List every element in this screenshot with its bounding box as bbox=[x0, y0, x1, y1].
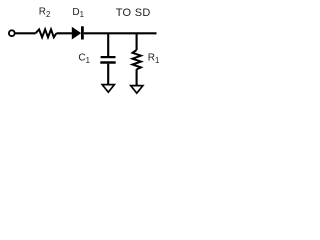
svg-text:R1: R1 bbox=[148, 53, 160, 65]
svg-text:TO SD: TO SD bbox=[116, 7, 151, 19]
svg-text:D1: D1 bbox=[72, 7, 84, 19]
svg-text:C1: C1 bbox=[78, 53, 90, 65]
svg-text:R2: R2 bbox=[39, 7, 51, 19]
